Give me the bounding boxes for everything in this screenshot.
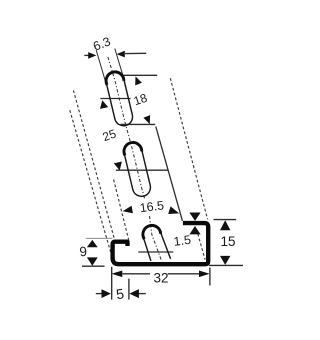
slot 3 center cross line [138,251,173,253]
arrowhead 15 down [220,256,230,265]
dimension line 32 right segment [168,273,199,275]
extension line 15 top [214,219,237,221]
dimension line 32 left segment [122,273,150,275]
extension line 6.3 left [96,50,105,81]
slot 3 thick top arc [143,225,161,239]
slot 2 outline [124,142,150,196]
slot 2 thick top arc [124,143,142,156]
dimension tail 6.3 right [125,52,146,54]
dimension tail 6.3 left [84,54,89,56]
arrowhead 5 left [102,289,111,298]
rail right edge [156,127,183,221]
extension line 15 bottom [209,264,243,266]
slot center line [108,57,145,199]
arrowhead 1.5 down [189,213,200,221]
slot 1 outline [106,72,132,126]
arrowhead 18 bottom [143,115,150,124]
extension line 32 left [111,267,113,300]
hidden edge left 3 [114,180,129,240]
svg-text:16.5: 16.5 [139,198,165,215]
hidden edge left 1 [70,110,111,252]
slot 1 thick top arc [106,72,124,85]
slot 2 center cross line [116,169,169,171]
svg-text:18: 18 [132,91,149,109]
svg-text:5: 5 [115,285,125,302]
arrowhead 25 bottom [114,162,122,171]
arrowhead 16.5 right [168,206,179,214]
extension line 18 top [121,74,157,76]
arrowhead 9 down [87,257,98,265]
svg-text:32: 32 [153,271,168,286]
arrowhead 6.3 right [117,51,125,58]
arrowhead 9 up [87,240,98,247]
arrowhead 18 top [135,76,142,85]
extension line 18 bottom [121,123,156,125]
arrowhead 5 right [129,289,139,298]
dimension tail 5 right [138,293,146,295]
slot 1 center cross line [100,98,130,100]
extension line 9 top [86,237,113,239]
svg-text:25: 25 [101,126,119,144]
arrowhead 1.5 up [189,226,200,234]
extension line 6.3 right [115,49,124,79]
svg-text:1.5: 1.5 [173,233,192,249]
arrowhead 15 up [220,220,230,230]
hidden edge right 1 [170,78,207,219]
svg-text:6.3: 6.3 [91,34,112,53]
svg-text:15: 15 [220,234,235,249]
hidden edge right 2 [198,234,205,260]
C-profile cross-section outline [113,223,209,264]
slot 3 outline [143,225,171,260]
extension line 32 right [209,268,211,286]
extension line 5 right [128,279,130,300]
hidden edge left 2 [73,90,114,238]
extension line 9 bottom [82,265,105,267]
svg-text:9: 9 [79,244,88,260]
arrowhead 25 top [100,100,108,109]
slot center line lower [150,216,162,261]
dimension tail 5 left [96,293,102,295]
arrowhead 32 right [199,271,210,278]
arrowhead 16.5 left [123,206,133,214]
arrowhead 6.3 left [88,52,96,59]
arrowhead 32 left [112,271,123,278]
